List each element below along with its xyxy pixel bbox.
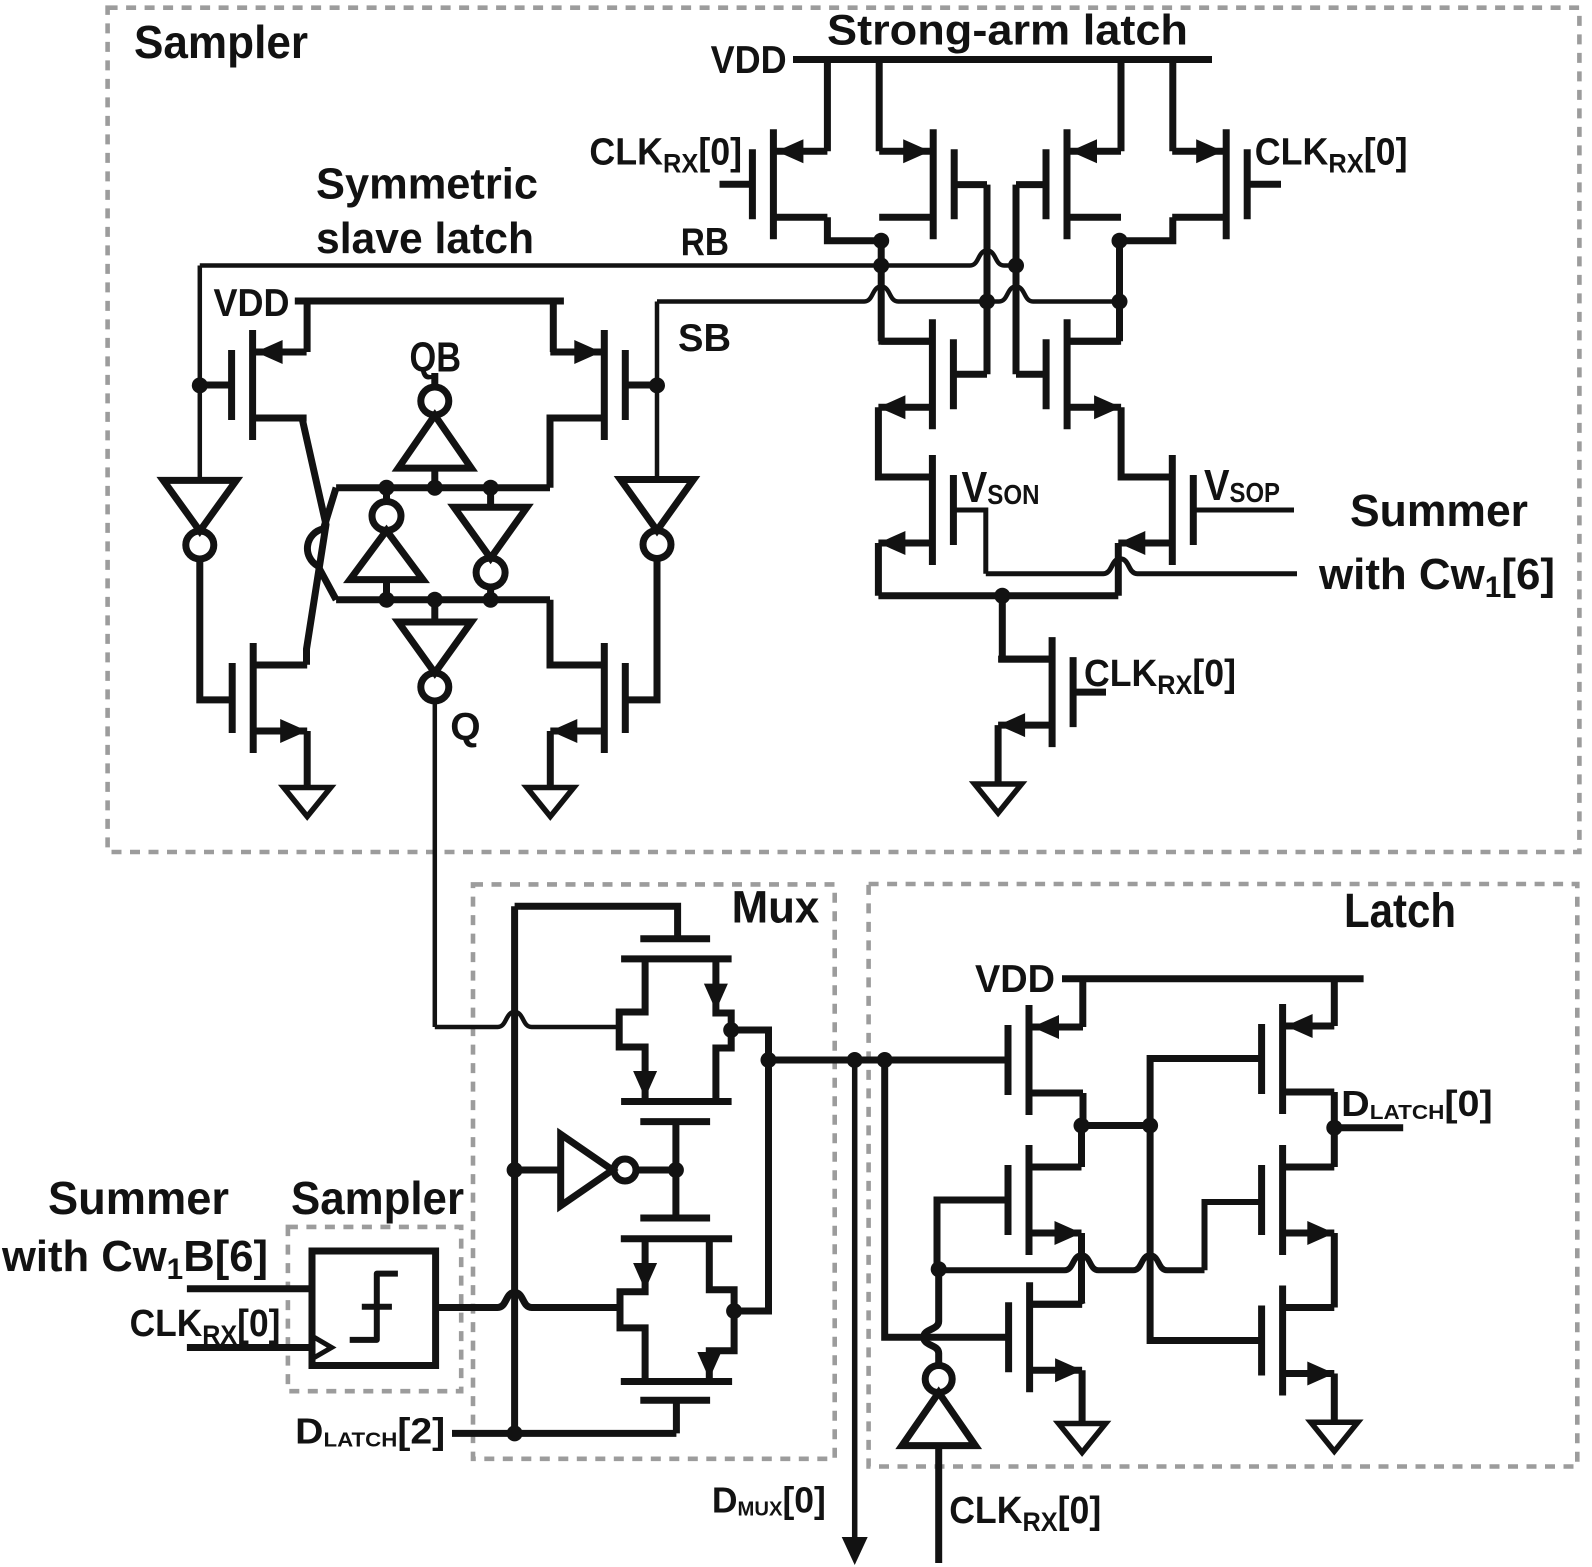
svg-text:Summer: Summer — [1350, 485, 1528, 536]
wire N9 gate to CLKB node — [937, 1200, 1008, 1269]
transistor P8 (latch right PMOS) — [1279, 1004, 1286, 1114]
transistor N9 (latch left NMOS, clk gate) — [1026, 1145, 1033, 1255]
wire N7 source to ground — [304, 731, 311, 788]
transistor N2 (cross-coupled NMOS right) — [1064, 319, 1071, 429]
node select input tap — [507, 1162, 523, 1178]
node right drain junction — [1112, 233, 1128, 249]
wire N9 source down to N10 drain — [1078, 1233, 1086, 1304]
inverter U7 (mux select inverter) — [515, 1167, 561, 1174]
wire Y to P8 gate (top path) — [1150, 1059, 1262, 1126]
wire VDD rail (strong-arm) — [793, 56, 1212, 63]
node DLATCH[0] — [1326, 1120, 1342, 1136]
dashed box: Sampler (outer) — [108, 8, 1580, 852]
wire SB tap down to inverter U2 — [655, 385, 660, 479]
svg-text:VSON: VSON — [962, 463, 1040, 512]
wire select vertical (DLATCH[2] line) — [511, 906, 518, 1433]
wire upper-bus left bypass with hop (QB bus to lower) — [307, 488, 336, 600]
svg-text:Q: Q — [450, 706, 480, 749]
svg-text:Strong-arm latch: Strong-arm latch — [827, 7, 1188, 55]
node lower bus at Q inverter input — [427, 592, 443, 608]
svg-text:slave latch: slave latch — [316, 214, 534, 263]
wire tail node to N5 drain — [1002, 596, 1052, 659]
wire P4 drain L to node SB — [1120, 217, 1173, 241]
svg-text:DMUX[0]: DMUX[0] — [712, 1479, 826, 1520]
inverter U1 (RB inverter, pointing down) — [163, 480, 236, 531]
wire P6 source to VDD — [550, 301, 557, 352]
svg-text:SB: SB — [678, 317, 731, 360]
inverter U6 (Q output inverter, pointing down) — [431, 600, 438, 622]
wire CLKRX[0] input to U8 — [935, 1446, 942, 1563]
transistor TG1 NMOS (bottom pass transistor) — [621, 1098, 732, 1105]
transistor P3 (cross-coupled PMOS, inner right) — [1064, 129, 1071, 239]
node upper bus at QB inverter input — [427, 480, 443, 496]
inverter U3 (cross inverter up, output bubble to QB bus) — [372, 502, 401, 531]
wire DLATCH node down to N11 drain — [1331, 1128, 1338, 1167]
wire sampler output to TG2 (hops over select line) — [436, 1293, 620, 1308]
wire U1 output to N7 gate — [200, 559, 232, 700]
wire N1 source down to N3 drain — [878, 407, 932, 477]
transistor N10 (latch left NMOS, data gate) — [1026, 1282, 1033, 1392]
wire mux output to latch — [769, 1057, 1009, 1064]
wire DLATCH[0] stub — [1334, 1124, 1403, 1131]
node RB at left drain — [873, 258, 889, 274]
transistor N5 (clock tail NMOS) — [1049, 637, 1056, 747]
ground (latch right) — [1311, 1422, 1358, 1451]
svg-text:Mux: Mux — [732, 882, 820, 933]
comparator X1 (sampler box) — [312, 1251, 436, 1366]
wire SB net (slave latch to strong-arm, hops over x=881) — [657, 287, 987, 302]
wire TG2 output up to mux output node — [734, 1060, 768, 1311]
wire TG2 bottom gate to DLATCH[2] — [673, 1400, 680, 1433]
ground (strong-arm tail) — [975, 784, 1022, 813]
wire tail node horizontal — [878, 592, 1118, 599]
wire TG2 right terminal — [709, 1239, 734, 1382]
node Y right — [1142, 1118, 1158, 1134]
transistor TG1 PMOS (top pass transistor) — [640, 935, 710, 942]
node TG1 output — [723, 1022, 739, 1038]
svg-text:VDD: VDD — [711, 39, 787, 82]
node mux output — [761, 1052, 777, 1068]
wire N11 source to N12 drain — [1331, 1233, 1338, 1308]
inverter U4 (cross inverter down, output bubble to Q bus) — [454, 507, 527, 558]
wire N4 gate route to summer — [1193, 508, 1294, 513]
transistor N7 (slave latch NMOS left) — [250, 643, 257, 753]
svg-text:CLKRX[0]: CLKRX[0] — [1084, 653, 1236, 700]
wire upper bus (QB side) — [336, 484, 550, 491]
wire left drain to N1 drain — [881, 338, 932, 345]
wire DMUX[0] output with arrow — [852, 1060, 858, 1541]
transistor N1 (cross-coupled NMOS left) — [929, 319, 936, 429]
wire right drain to N2 drain — [1067, 338, 1119, 345]
transistor N11 (latch right NMOS, clk gate) — [1279, 1145, 1286, 1255]
wire cross-couple vertical right (x=1016) — [1013, 185, 1020, 375]
wire DLATCH[2] horizontal — [452, 1430, 676, 1437]
wire RB corner into slave latch — [198, 266, 203, 386]
dashed box: Sampler (small) — [288, 1227, 461, 1391]
svg-text:Sampler: Sampler — [291, 1172, 464, 1224]
node inverter output — [668, 1162, 684, 1178]
wire P1 drain L to node RB — [827, 217, 881, 241]
transistor TG2 PMOS (top pass transistor) — [640, 1215, 710, 1222]
wire N2 gate stub — [1016, 371, 1046, 378]
wire TG2 left terminal — [620, 1239, 645, 1382]
wire P8 source to VDD — [1331, 979, 1338, 1026]
wire lower bus (Q side) — [336, 596, 550, 603]
node latch data branch — [877, 1052, 893, 1068]
node CLKB — [931, 1261, 947, 1277]
node tail junction — [994, 588, 1010, 604]
transistor P1 (clock precharge PMOS, left) — [770, 129, 777, 239]
svg-text:with Cw1B[6]: with Cw1B[6] — [1, 1232, 268, 1286]
wire N10 source to ground — [1079, 1370, 1086, 1423]
wire cross-couple vertical left (x=987) — [984, 185, 991, 375]
node DMUX branch — [847, 1052, 863, 1068]
transistor N3 (input NMOS VSON) — [929, 455, 936, 565]
wire P7 drain to node Y — [1080, 1093, 1087, 1126]
svg-text:CLKRX[0]: CLKRX[0] — [589, 132, 742, 179]
svg-text:DLATCH[2]: DLATCH[2] — [295, 1411, 445, 1452]
node left drain junction — [873, 233, 889, 249]
wire P3 source to VDD — [1118, 60, 1125, 152]
node RB to right NMOS gate column — [1008, 258, 1024, 274]
wire Y to N12 gate (bottom path) — [1150, 1126, 1262, 1341]
wire P6 drain to upper bus corner — [550, 418, 604, 488]
wire Y down to N9 drain — [1078, 1126, 1085, 1168]
wire VDD rail (slave latch) — [295, 298, 564, 305]
svg-text:DLATCH[0]: DLATCH[0] — [1341, 1083, 1493, 1124]
wire P2 source to VDD — [876, 60, 883, 152]
wire node Y horizontal — [1082, 1122, 1151, 1129]
wire N8 source to ground — [547, 731, 554, 788]
node Y left — [1074, 1118, 1090, 1134]
svg-text:CLKRX[0]: CLKRX[0] — [1255, 132, 1408, 179]
transistor P2 (cross-coupled PMOS, inner left) — [930, 129, 937, 239]
transistor N12 (latch right NMOS) — [1279, 1286, 1286, 1396]
wire RB hop over x=987 — [881, 251, 1016, 266]
wire N3 gate route to summer — [953, 510, 985, 574]
transistor P6 (slave latch PMOS right, gate SB) — [601, 330, 608, 440]
ground (slave latch left) — [284, 788, 331, 817]
node SB at right drain column — [1112, 294, 1128, 310]
node RB gate tap (left) — [192, 377, 208, 393]
wire SB corner into slave latch — [655, 302, 660, 386]
inverter U2 (SB inverter, pointing down) — [621, 480, 694, 531]
dashed box: Mux — [473, 884, 835, 1458]
wire N12 source to ground — [1331, 1374, 1338, 1423]
svg-text:Summer: Summer — [48, 1172, 229, 1224]
svg-text:CLKRX[0]: CLKRX[0] — [949, 1490, 1101, 1537]
svg-text:VSOP: VSOP — [1204, 461, 1280, 510]
wire summer input to sampler — [187, 1285, 312, 1292]
wire N3 source to tail — [875, 543, 882, 596]
node upper bus at U3 output — [379, 480, 395, 496]
wire N1 gate stub — [953, 371, 987, 378]
wire U7 output to TG2 top gate — [672, 1170, 679, 1218]
wire Q net from slave latch to mux (hops over select line) — [433, 701, 438, 1027]
node DLATCH[2] select junction — [507, 1425, 523, 1441]
node upper bus at U4 input — [483, 480, 499, 496]
sampler clock triangle — [314, 1337, 332, 1358]
wire TG1 left terminal — [619, 959, 645, 1102]
wire TG2 input joint — [617, 1292, 624, 1328]
comparator hysteresis symbol — [350, 1274, 398, 1340]
wire lower bus corner down to N8 drain — [550, 600, 604, 665]
wire TG1 output to mux output node — [731, 1030, 768, 1060]
wire U2 output to N8 gate — [625, 559, 657, 700]
svg-text:Latch: Latch — [1344, 885, 1456, 938]
wire P8 drain to DLATCH node — [1331, 1092, 1338, 1128]
wire N2 source down to N4 drain — [1121, 407, 1172, 477]
node lower bus at U3 input — [379, 592, 395, 608]
wire select to TG1 top gate — [515, 906, 678, 939]
wire clock inverter output to CLKB node (hops over N10 gate wire) — [924, 1269, 939, 1365]
wire P5 source to VDD — [304, 301, 311, 352]
wire U7 output to TG1 bottom gate — [672, 1122, 679, 1170]
transistor N8 (slave latch NMOS right) — [601, 643, 608, 753]
svg-text:with Cw1[6]: with Cw1[6] — [1318, 550, 1555, 604]
wire CLKB distribution to right inverter (hops) — [939, 1255, 1205, 1270]
transistor N4 (input NMOS VSOP) — [1169, 455, 1176, 565]
wire N5 source to ground — [995, 725, 1002, 784]
node SB at left cross column — [979, 294, 995, 310]
wire N4 source to tail — [1115, 543, 1122, 596]
inverter U8 (clock inverter, pointing up) — [925, 1366, 952, 1393]
wire SB hop over x=1016 — [987, 287, 1120, 302]
wire P4 source to VDD — [1169, 60, 1176, 152]
ground (latch left) — [1059, 1424, 1106, 1453]
wire N10 gate from data branch — [885, 1060, 1009, 1337]
node SB gate tap (right) — [649, 377, 665, 393]
svg-text:RB: RB — [681, 221, 729, 264]
node lower bus at U4 output — [483, 592, 499, 608]
wire RB net (slave latch to strong-arm) — [200, 263, 881, 268]
dashed box: Latch — [869, 884, 1578, 1467]
node TG2 output — [726, 1303, 742, 1319]
wire P5 drain diagonal down to N7 drain — [302, 418, 326, 665]
svg-text:VDD: VDD — [975, 958, 1055, 1001]
transistor TG2 NMOS (bottom pass transistor) — [621, 1378, 732, 1385]
transistor P4 (clock precharge PMOS, right) — [1223, 129, 1230, 239]
transistor P7 (latch left PMOS, data gate) — [1026, 1005, 1033, 1115]
wire RB tap down to inverter U1 — [198, 385, 203, 480]
wire P7 source to VDD — [1079, 979, 1086, 1027]
wire right drain vertical (SB column) — [1116, 241, 1123, 342]
wire P1 source to VDD — [824, 60, 831, 152]
inverter U5 (QB output inverter, pointing up) — [431, 373, 438, 387]
svg-text:CLKRX[0]: CLKRX[0] — [130, 1303, 281, 1350]
svg-text:Sampler: Sampler — [134, 16, 308, 68]
wire left drain vertical (RB column) — [878, 241, 885, 342]
wire CLK input to sampler — [187, 1344, 312, 1351]
svg-text:Symmetric: Symmetric — [316, 160, 538, 209]
wire TG1 right terminal — [716, 959, 731, 1102]
wire P3 gate stub to cross line — [1016, 181, 1046, 188]
ground (slave latch right) — [527, 788, 574, 817]
wire P2 gate stub to cross line — [954, 181, 987, 188]
wire VDD rail (latch) — [1062, 975, 1364, 982]
transistor P5 (slave latch PMOS left, gate RB) — [249, 330, 256, 440]
svg-text:VDD: VDD — [214, 282, 290, 325]
